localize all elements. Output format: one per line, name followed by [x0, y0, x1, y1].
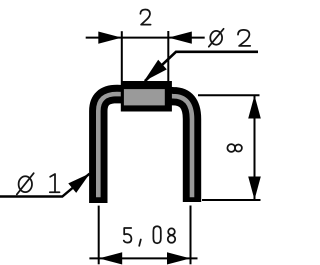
comma: [139, 240, 141, 246]
arrow left-pointing (5,08 dim): [99, 252, 122, 264]
digit 8: [168, 228, 175, 235]
leader line for Ø1: [0, 174, 90, 197]
arrow down (8 dim): [248, 177, 261, 200]
top extension line (8 dim): [198, 94, 260, 96]
digit 5: [124, 228, 132, 243]
wire jumper body outline (U-shaped tube, black): [98, 94, 192, 203]
digit 1: [50, 174, 60, 192]
arrow right-pointing (2 dim left): [98, 32, 121, 44]
diameter symbol Ø: [19, 176, 32, 192]
body cap (black border rectangle): [121, 81, 172, 112]
text "2" top: [140, 10, 150, 25]
bottom dimension line "5,08": [89, 257, 197, 259]
bottom left extension line: [98, 206, 100, 265]
wire jumper core (gray): [98, 94, 192, 197]
arrow right-pointing (5,08 dim): [167, 252, 190, 264]
extension tick left (2 dim): [121, 31, 123, 81]
dimension line "2": [86, 37, 205, 39]
text "8" right (rotated): [227, 144, 241, 152]
text "Ø 1" left: [17, 173, 60, 194]
digit 0: [153, 226, 160, 243]
leader arrow Ø2: [144, 60, 167, 82]
leader arrow Ø1: [68, 173, 90, 193]
text "5,08" bottom: [124, 226, 175, 246]
extension tick right (2 dim): [167, 31, 169, 81]
arrow left-pointing (2 dim right): [169, 32, 192, 44]
body cap (gray inner): [124, 89, 165, 105]
digit 2: [238, 30, 250, 46]
leader line for Ø2: [145, 52, 258, 81]
bottom extension line (8 dim): [202, 199, 261, 201]
vertical dimension line "8": [254, 95, 256, 200]
arrow up (8 dim): [248, 95, 261, 118]
bottom right extension line: [190, 206, 192, 265]
diameter symbol Ø: [210, 31, 222, 45]
text "Ø 2" top right: [209, 29, 250, 47]
